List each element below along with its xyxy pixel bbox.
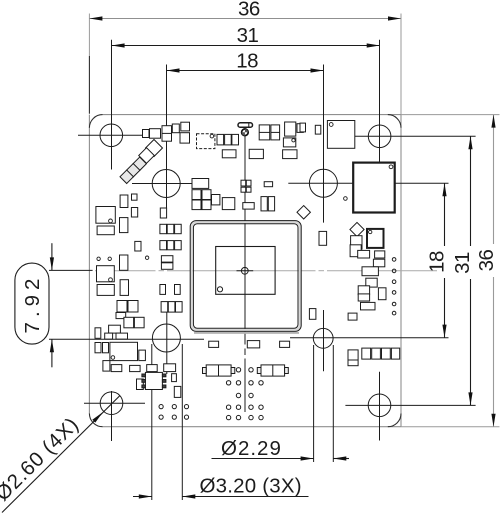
svg-text:31: 31 <box>451 252 474 274</box>
svg-text:18: 18 <box>236 49 258 72</box>
svg-text:31: 31 <box>237 24 259 47</box>
svg-text:Ø2.29: Ø2.29 <box>221 437 282 460</box>
svg-text:36: 36 <box>475 250 498 272</box>
svg-text:18: 18 <box>425 251 448 273</box>
svg-text:7.92: 7.92 <box>21 274 44 334</box>
svg-text:36: 36 <box>238 0 260 21</box>
svg-text:Ø3.20 (3X): Ø3.20 (3X) <box>200 475 302 498</box>
